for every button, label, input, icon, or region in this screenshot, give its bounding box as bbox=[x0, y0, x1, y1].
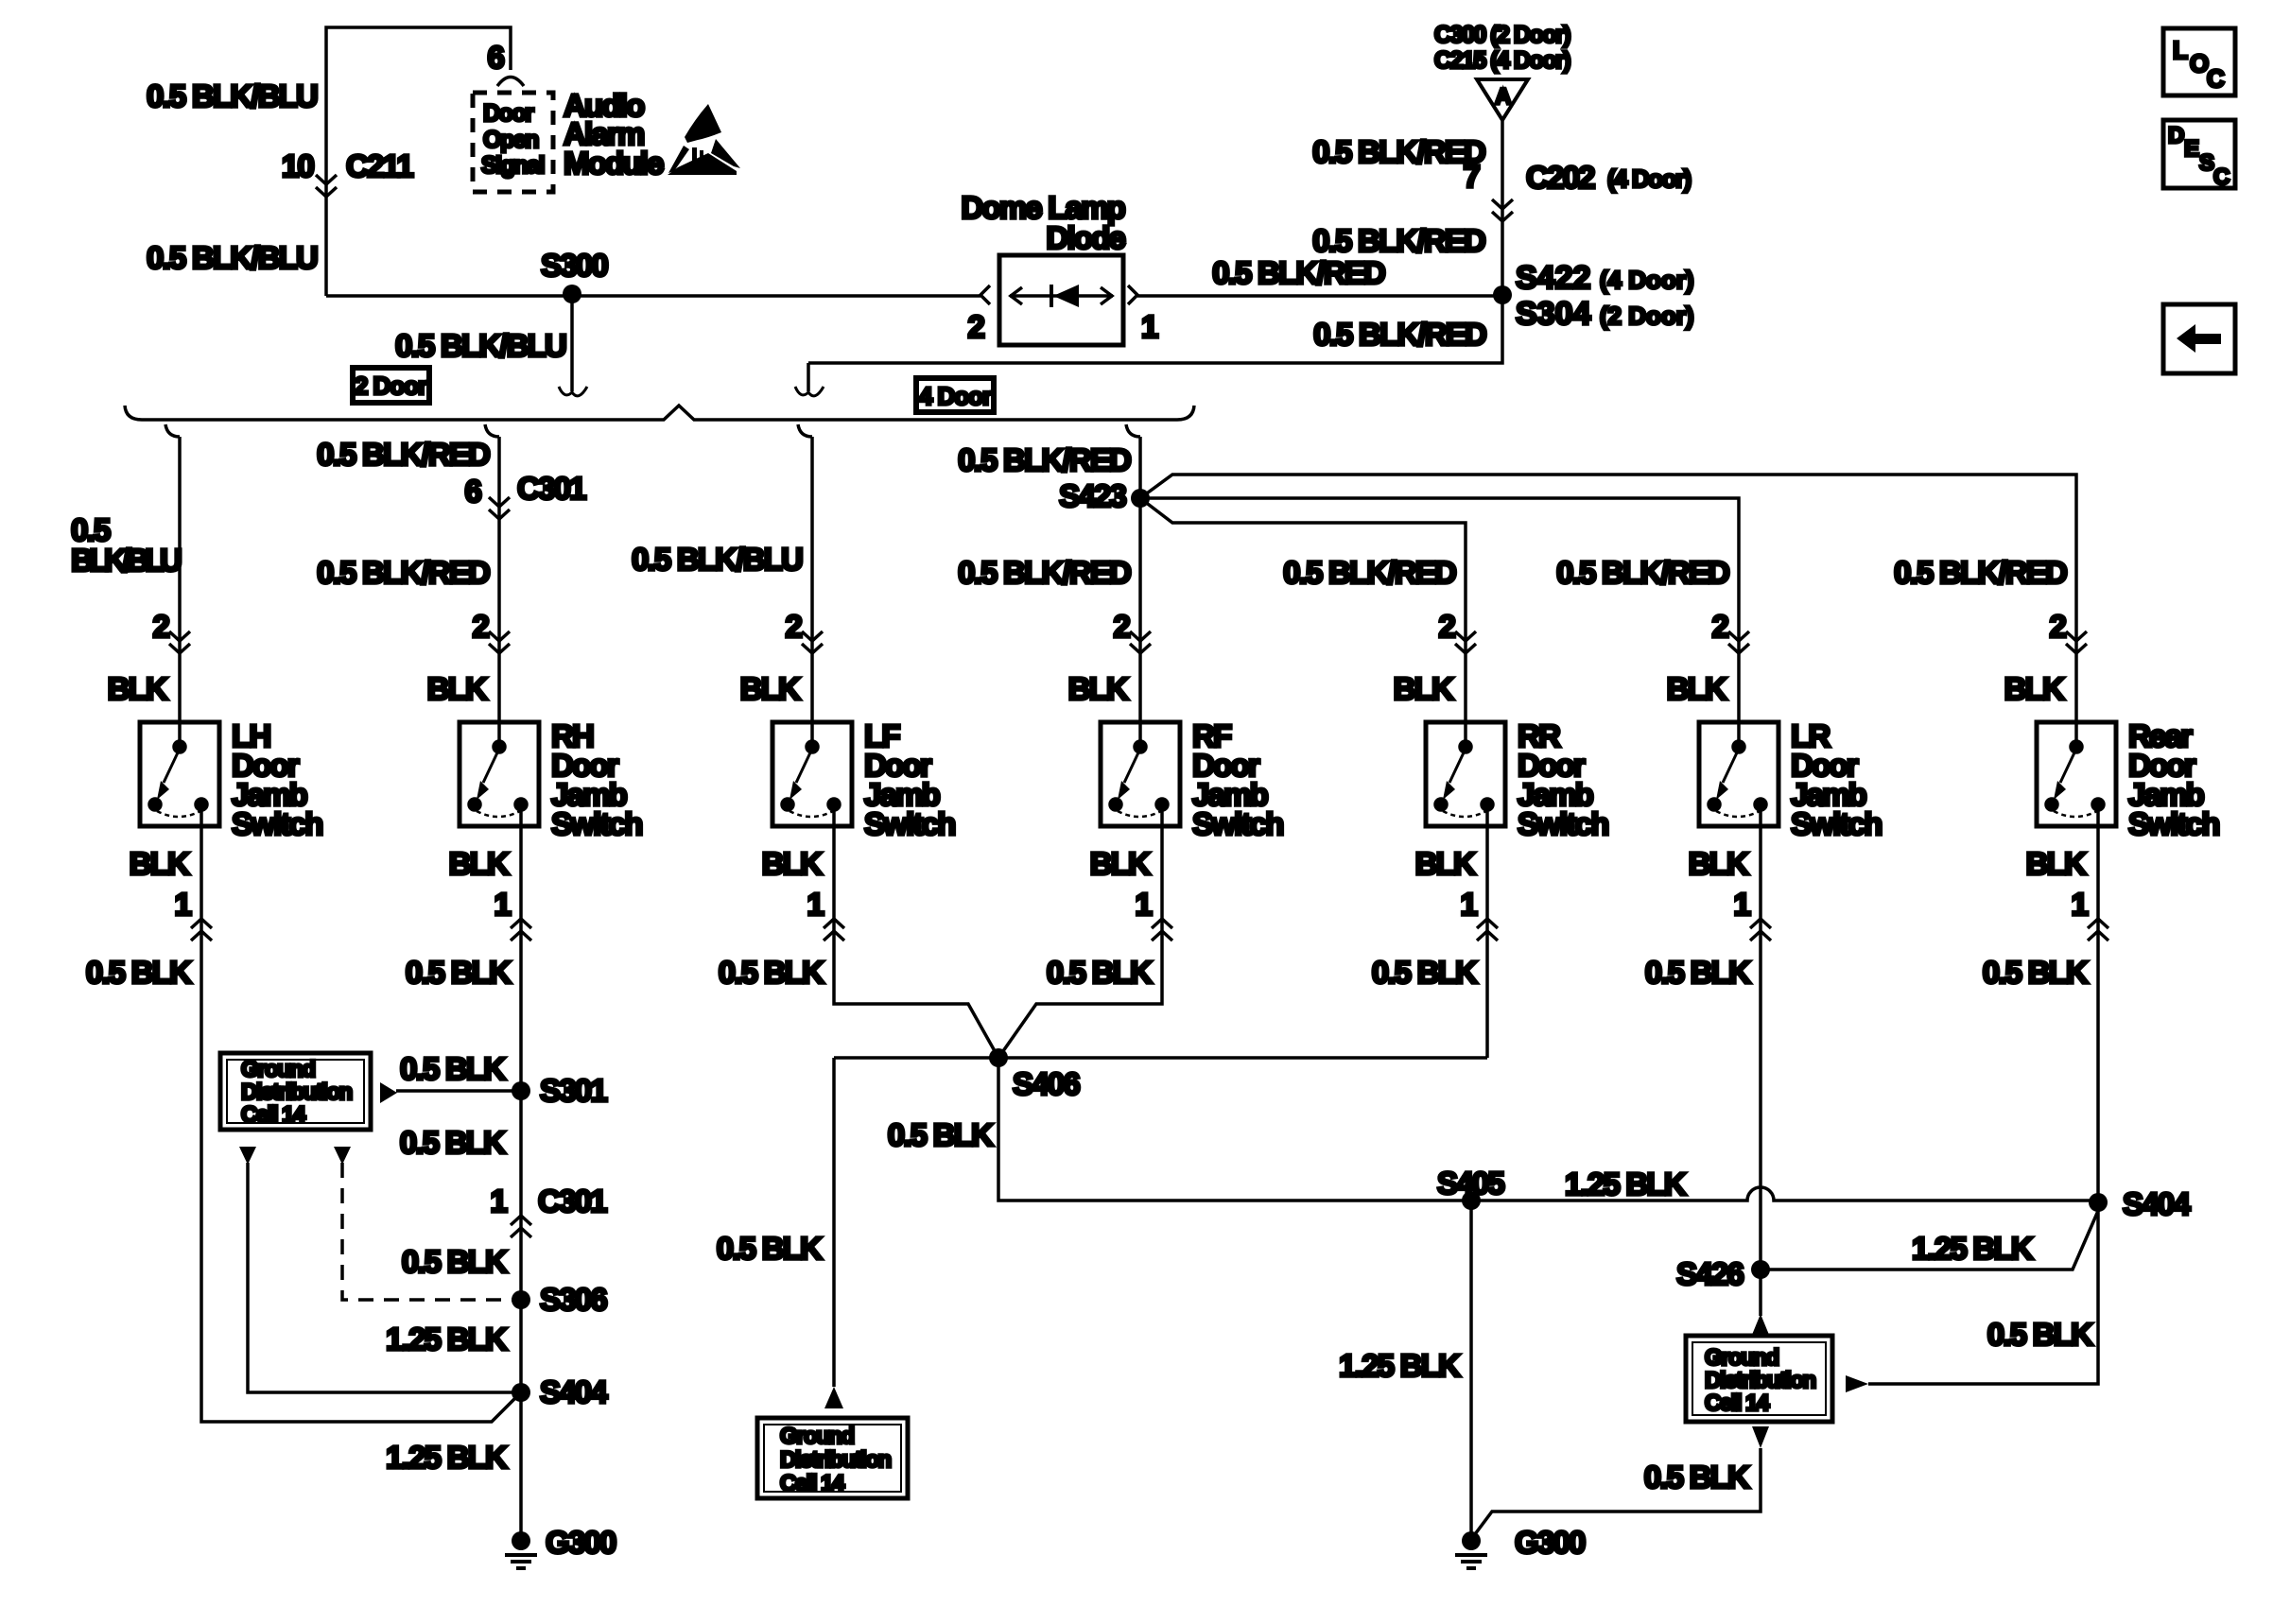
svg-text:S406: S406 bbox=[1013, 1066, 1080, 1101]
svg-text:BLK: BLK bbox=[108, 671, 168, 706]
wire LR pin1 to S426 bbox=[1759, 942, 1762, 1270]
svg-text:0.5 BLK/BLU: 0.5 BLK/BLU bbox=[147, 78, 317, 113]
wire hook LF column bbox=[798, 424, 812, 437]
svg-text:Cell 14: Cell 14 bbox=[1705, 1391, 1770, 1416]
splice S404 (left) bbox=[512, 1383, 530, 1402]
wire RH column drop bbox=[497, 437, 501, 722]
arrow from Ground Distribution to S301 bbox=[380, 1082, 397, 1103]
svg-text:BLK: BLK bbox=[427, 671, 488, 706]
splice S405 bbox=[1462, 1191, 1481, 1210]
svg-text:E: E bbox=[2184, 136, 2199, 162]
Ground Distribution Cell 14 box (left) bbox=[220, 1053, 371, 1130]
splice S426 bbox=[1751, 1260, 1770, 1279]
wire + pin 1 connector below RR switch bbox=[1485, 826, 1489, 942]
connector C301 (pin 6) bbox=[489, 497, 510, 519]
ground G300 (left) bbox=[512, 1531, 530, 1550]
wire + pin 1 connector below RF switch bbox=[1160, 826, 1164, 942]
svg-text:S404: S404 bbox=[2123, 1186, 2191, 1221]
svg-text:BLK/BLU: BLK/BLU bbox=[71, 543, 181, 578]
svg-text:C211: C211 bbox=[346, 148, 413, 183]
svg-text:0.5 BLK: 0.5 BLK bbox=[719, 955, 824, 990]
svg-text:0.5 BLK: 0.5 BLK bbox=[1047, 955, 1153, 990]
wire LH column drop bbox=[178, 437, 182, 722]
wire + pin 1 connector below LH switch bbox=[200, 826, 203, 942]
svg-text:0.5 BLK/BLU: 0.5 BLK/BLU bbox=[632, 542, 802, 577]
wire: S300 drop to 2-Door section bbox=[570, 294, 574, 391]
svg-text:1: 1 bbox=[1733, 887, 1750, 922]
svg-text:1: 1 bbox=[174, 887, 191, 922]
svg-text:0.5 BLK: 0.5 BLK bbox=[717, 1231, 823, 1266]
Audio Alarm Module dashed box: Door Open Signal bbox=[473, 93, 553, 192]
RR Door Jamb Switch bbox=[1426, 722, 1505, 826]
svg-text:BLK: BLK bbox=[2026, 846, 2087, 881]
svg-text:Ground: Ground bbox=[241, 1057, 315, 1082]
wire hook LH column bbox=[165, 424, 180, 437]
svg-text:C300 (2 Door): C300 (2 Door) bbox=[1434, 22, 1570, 48]
Ground Distribution Cell 14 box (right) bbox=[1686, 1336, 1832, 1422]
splice S422/S304 bbox=[1493, 285, 1512, 304]
LR Door Jamb Switch bbox=[1699, 722, 1778, 826]
svg-text:C215 (4 Door): C215 (4 Door) bbox=[1434, 47, 1570, 74]
wire: main horizontal to dome lamp diode bbox=[326, 294, 980, 298]
svg-text:Switch: Switch bbox=[551, 806, 642, 841]
svg-text:2: 2 bbox=[1438, 609, 1455, 644]
svg-text:0.5 BLK: 0.5 BLK bbox=[1372, 955, 1478, 990]
LF Door Jamb Switch bbox=[772, 722, 852, 826]
svg-text:Switch: Switch bbox=[2128, 806, 2219, 841]
svg-text:0.5 BLK: 0.5 BLK bbox=[1644, 1460, 1750, 1494]
svg-text:BLK: BLK bbox=[1068, 671, 1129, 706]
svg-text:0.5 BLK/RED: 0.5 BLK/RED bbox=[1212, 255, 1385, 290]
svg-text:0.5 BLK/RED: 0.5 BLK/RED bbox=[1894, 555, 2067, 590]
svg-text:1: 1 bbox=[807, 887, 824, 922]
splice S300 bbox=[563, 285, 581, 303]
svg-text:Door: Door bbox=[483, 100, 534, 127]
svg-text:C202: C202 bbox=[1526, 160, 1595, 195]
connector C300/C215 triangle A bbox=[1477, 79, 1528, 120]
svg-text:C: C bbox=[2207, 64, 2225, 93]
4 Door tag box bbox=[916, 378, 994, 412]
svg-text:S: S bbox=[2199, 150, 2214, 176]
svg-text:1.25 BLK: 1.25 BLK bbox=[1565, 1166, 1687, 1201]
svg-text:C301: C301 bbox=[517, 471, 586, 506]
svg-text:0.5 BLK: 0.5 BLK bbox=[400, 1125, 506, 1160]
svg-text:2: 2 bbox=[472, 609, 489, 644]
svg-text:0.5 BLK/RED: 0.5 BLK/RED bbox=[1283, 555, 1456, 590]
diode pin 2 bbox=[980, 285, 990, 304]
splice S306 bbox=[512, 1290, 530, 1309]
svg-text:BLK: BLK bbox=[740, 671, 801, 706]
svg-text:S423: S423 bbox=[1059, 478, 1126, 513]
wire: S406 branch to left Ground Distribution (middle) bbox=[832, 1058, 836, 1387]
RF Door Jamb Switch bbox=[1101, 722, 1180, 826]
ESD sensitivity icon bbox=[668, 104, 740, 175]
svg-text:G300: G300 bbox=[1515, 1525, 1585, 1560]
wire: S423 to LR column bbox=[1140, 498, 1739, 722]
RH Door Jamb Switch bbox=[460, 722, 539, 826]
svg-text:2: 2 bbox=[152, 609, 169, 644]
wire RR pin1 to S406 horizontal bbox=[1485, 942, 1489, 1058]
connector C211 bbox=[316, 175, 337, 197]
svg-text:2: 2 bbox=[967, 309, 984, 344]
svg-text:BLK: BLK bbox=[1689, 846, 1749, 881]
wire: S405 down to G300 bbox=[1469, 1201, 1473, 1536]
wire: S426 to S404 bbox=[1761, 1211, 2098, 1270]
wire: dashed leg to S306 bbox=[342, 1163, 521, 1300]
wire + pin 1 connector below LR switch bbox=[1759, 826, 1762, 942]
svg-text:Switch: Switch bbox=[1518, 806, 1608, 841]
svg-text:Switch: Switch bbox=[232, 806, 322, 841]
wire: triangle A down to S422 bbox=[1501, 120, 1504, 294]
svg-text:Switch: Switch bbox=[864, 806, 955, 841]
svg-text:BLK: BLK bbox=[449, 846, 510, 881]
svg-text:BLK: BLK bbox=[1667, 671, 1727, 706]
svg-text:BLK: BLK bbox=[2004, 671, 2065, 706]
svg-text:0.5 BLK: 0.5 BLK bbox=[1983, 955, 2089, 990]
svg-text:Distribution: Distribution bbox=[241, 1080, 352, 1105]
2 Door tag box bbox=[353, 368, 429, 403]
Dome Lamp Diode component bbox=[999, 255, 1123, 345]
svg-text:1.25 BLK: 1.25 BLK bbox=[386, 1322, 508, 1356]
svg-text:O: O bbox=[2190, 49, 2209, 78]
svg-text:0.5 BLK: 0.5 BLK bbox=[406, 955, 512, 990]
svg-text:Cell 14: Cell 14 bbox=[780, 1471, 845, 1496]
pin 2 connector RF bbox=[1130, 631, 1151, 653]
Rear Door Jamb Switch bbox=[2037, 722, 2116, 826]
pin 2 connector LR bbox=[1728, 631, 1749, 653]
wire: Audio Alarm Module loop top bbox=[326, 27, 511, 296]
arrows into Ground Distribution box (left) bbox=[239, 1147, 256, 1165]
wire: diode to S422 bbox=[1137, 294, 1502, 298]
svg-text:A: A bbox=[1495, 84, 1511, 110]
svg-text:S422 (4 Door): S422 (4 Door) bbox=[1516, 260, 1694, 296]
svg-text:Ground: Ground bbox=[1705, 1345, 1778, 1371]
svg-text:BLK: BLK bbox=[1415, 846, 1476, 881]
wire + pin 1 connector below LF switch bbox=[832, 826, 836, 942]
svg-text:1.25 BLK: 1.25 BLK bbox=[386, 1440, 508, 1475]
wire LF column drop bbox=[810, 437, 814, 722]
svg-text:6: 6 bbox=[487, 40, 504, 75]
connector C301 (pin 1) bbox=[511, 1216, 531, 1237]
wire LF pin1 to S406 bbox=[834, 942, 998, 1058]
svg-text:Open: Open bbox=[483, 127, 538, 153]
wire hook RH column bbox=[485, 424, 499, 437]
distribution brace bbox=[125, 406, 1194, 420]
svg-text:0.5 BLK/RED: 0.5 BLK/RED bbox=[1313, 317, 1486, 352]
svg-text:S306: S306 bbox=[540, 1282, 607, 1317]
svg-text:1: 1 bbox=[490, 1183, 507, 1218]
svg-text:Diode: Diode bbox=[1046, 220, 1125, 255]
svg-text:1: 1 bbox=[1141, 309, 1158, 344]
wire RF pin1 to S406 bbox=[998, 942, 1162, 1058]
back arrow tag bbox=[2163, 304, 2235, 373]
svg-text:0.5 BLK/BLU: 0.5 BLK/BLU bbox=[395, 328, 565, 363]
svg-text:S304 (2 Door): S304 (2 Door) bbox=[1516, 296, 1694, 332]
svg-text:0.5 BLK/RED: 0.5 BLK/RED bbox=[1556, 555, 1729, 590]
svg-text:0.5 BLK: 0.5 BLK bbox=[86, 955, 192, 990]
svg-text:0.5 BLK: 0.5 BLK bbox=[400, 1051, 506, 1086]
wire + pin 1 connector below RH switch bbox=[519, 826, 523, 942]
wire: S406 down to S405 bbox=[998, 1058, 1471, 1201]
svg-text:Distribution: Distribution bbox=[780, 1447, 891, 1473]
svg-text:1: 1 bbox=[1460, 887, 1477, 922]
pin 2 connector Rear bbox=[2066, 631, 2087, 653]
svg-text:6: 6 bbox=[464, 474, 481, 509]
wire + pin 1 connector below Rear switch bbox=[2096, 826, 2100, 942]
svg-text:1.25 BLK: 1.25 BLK bbox=[1339, 1348, 1461, 1383]
svg-text:C301: C301 bbox=[538, 1183, 607, 1218]
svg-text:0.5 BLK/RED: 0.5 BLK/RED bbox=[958, 442, 1131, 477]
svg-text:2: 2 bbox=[1113, 609, 1130, 644]
pin 2 connector RR bbox=[1455, 631, 1476, 653]
svg-text:Ground: Ground bbox=[780, 1424, 854, 1449]
svg-text:1: 1 bbox=[2071, 887, 2088, 922]
pin 2 connector RH bbox=[489, 631, 510, 653]
wire hook RF column bbox=[1126, 424, 1140, 437]
svg-text:0.5 BLK/RED: 0.5 BLK/RED bbox=[317, 437, 490, 472]
wire: S422 drop to 4-Door section bbox=[808, 295, 1502, 363]
pin 2 connector LH bbox=[169, 631, 190, 653]
svg-text:7: 7 bbox=[1463, 159, 1479, 194]
splice S406 bbox=[834, 1056, 1487, 1060]
wire LH pin1 to S404 bbox=[201, 942, 521, 1422]
wire RH pin1 down to G300 bbox=[519, 942, 523, 1536]
svg-text:Signal: Signal bbox=[481, 152, 545, 179]
svg-text:BLK: BLK bbox=[762, 846, 823, 881]
splice S404 (right) bbox=[2089, 1193, 2108, 1212]
svg-text:1.25 BLK: 1.25 BLK bbox=[1912, 1231, 2034, 1266]
svg-text:1: 1 bbox=[1135, 887, 1152, 922]
svg-text:4 Door: 4 Door bbox=[919, 382, 992, 410]
svg-text:BLK: BLK bbox=[1394, 671, 1454, 706]
svg-text:S300: S300 bbox=[541, 248, 607, 283]
svg-text:D: D bbox=[2168, 123, 2184, 148]
svg-text:0.5 BLK/RED: 0.5 BLK/RED bbox=[317, 555, 490, 590]
pin 2 connector LF bbox=[802, 631, 823, 653]
svg-text:0.5 BLK: 0.5 BLK bbox=[1987, 1317, 2093, 1352]
svg-text:10: 10 bbox=[282, 148, 314, 183]
wire: S423 to Rear column bbox=[1140, 475, 2076, 722]
svg-text:0.5 BLK/RED: 0.5 BLK/RED bbox=[1312, 223, 1485, 258]
pin 6 connector at Audio Alarm Module bbox=[497, 78, 524, 87]
wire: S405 to S404 with hop over LR wire bbox=[1471, 1187, 2098, 1201]
svg-text:Distribution: Distribution bbox=[1705, 1368, 1815, 1393]
connector C202 bbox=[1492, 199, 1513, 221]
svg-text:Cell 14: Cell 14 bbox=[241, 1102, 306, 1128]
svg-text:0.5 BLK: 0.5 BLK bbox=[402, 1244, 508, 1279]
DESC tag bbox=[2163, 120, 2235, 190]
wire: right Ground Distribution bottom to G300 bbox=[1752, 1426, 1769, 1448]
wire: S426 into right Ground Distribution box bbox=[1759, 1270, 1762, 1316]
svg-text:S426: S426 bbox=[1676, 1256, 1744, 1291]
svg-text:Switch: Switch bbox=[1192, 806, 1283, 841]
Ground Distribution Cell 14 box (middle) bbox=[757, 1418, 908, 1498]
splice S423 bbox=[1131, 489, 1150, 508]
svg-text:0.5 BLK/BLU: 0.5 BLK/BLU bbox=[147, 240, 317, 275]
svg-text:(4 Door): (4 Door) bbox=[1607, 164, 1692, 193]
wire RF column drop bbox=[1138, 437, 1142, 722]
svg-text:2 Door: 2 Door bbox=[355, 371, 427, 400]
wire Rear pin1 through S404 to right Ground Distribution bbox=[1868, 942, 2098, 1384]
svg-text:0.5 BLK/RED: 0.5 BLK/RED bbox=[958, 555, 1131, 590]
wire: S423 to RR column bbox=[1140, 498, 1466, 722]
svg-text:1: 1 bbox=[494, 887, 511, 922]
svg-text:L: L bbox=[2173, 36, 2188, 64]
svg-text:C: C bbox=[2213, 164, 2230, 190]
svg-text:2: 2 bbox=[785, 609, 802, 644]
svg-text:2: 2 bbox=[2049, 609, 2066, 644]
svg-text:S404: S404 bbox=[540, 1374, 608, 1409]
svg-text:S301: S301 bbox=[540, 1073, 607, 1108]
svg-text:S405: S405 bbox=[1437, 1166, 1504, 1201]
ground G300 (right) bbox=[1462, 1531, 1481, 1550]
diode pin 1 bbox=[1128, 285, 1137, 304]
wire: Ground Distribution solid leg to S404 bbox=[248, 1163, 521, 1392]
svg-text:BLK: BLK bbox=[1090, 846, 1151, 881]
svg-text:G300: G300 bbox=[546, 1525, 616, 1560]
svg-text:BLK: BLK bbox=[130, 846, 190, 881]
LOC tag bbox=[2163, 28, 2235, 95]
svg-text:2: 2 bbox=[1711, 609, 1728, 644]
LH Door Jamb Switch bbox=[140, 722, 219, 826]
splice S301 bbox=[512, 1081, 530, 1100]
svg-text:0.5 BLK: 0.5 BLK bbox=[888, 1117, 994, 1152]
svg-text:0.5 BLK: 0.5 BLK bbox=[1645, 955, 1751, 990]
svg-text:Module: Module bbox=[564, 146, 664, 181]
svg-text:Switch: Switch bbox=[1791, 806, 1882, 841]
svg-text:0.5 BLK/RED: 0.5 BLK/RED bbox=[1312, 134, 1485, 169]
